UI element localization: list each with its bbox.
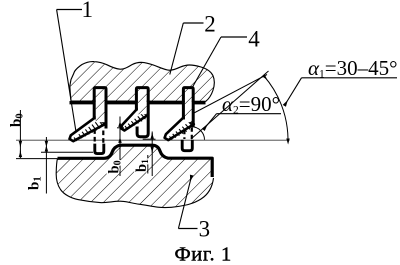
lower plate part 3: stepped top surface (58, 145, 213, 177)
extension line (lower plate surface level) (16, 158, 57, 160)
lower plate part 3: wavy break edge (56, 158, 213, 207)
svg-text:4: 4 (248, 27, 260, 52)
tooth 4 instance 1 (70, 88, 107, 154)
dimension b0 (middle) (119, 117, 121, 177)
lower plate part 3: hatched body (56, 145, 213, 207)
hidden dashes (184, 128, 191, 140)
hidden dashes (95, 129, 104, 143)
angle arc alpha2 (90deg) at tooth 3 (192, 127, 205, 140)
hook strip (70, 117, 106, 141)
bar (96, 89, 105, 122)
upper plate part 2: bottom surface line segments (70, 101, 206, 104)
construction ray at 41deg (alpha1 upper bound) (191, 71, 269, 139)
dimension b1 (middle) (151, 132, 153, 177)
extension line (tooth 1 bottom level) (41, 151, 93, 153)
dimension b0 (left) (19, 110, 21, 158)
bottom end U (95, 144, 104, 154)
bar (185, 89, 192, 122)
tooth 4 instance 2 (121, 88, 148, 137)
upper plate part 2: hatched body with wavy break outline (70, 62, 214, 102)
svg-text:α2=90°: α2=90° (222, 92, 280, 117)
construction ray at 28deg (alpha1 lower bound) (193, 75, 267, 114)
svg-text:Фиг. 1: Фиг. 1 (175, 244, 232, 265)
dimension b1 (left) (45, 137, 47, 194)
hook strip (121, 109, 148, 131)
reference line (barb tip level) (16, 139, 290, 141)
svg-text:3: 3 (199, 216, 211, 241)
svg-text:1: 1 (82, 0, 94, 22)
dimension arc for angle alpha1 (264, 76, 289, 139)
bar (138, 89, 147, 114)
tooth 4 instance 3 (165, 88, 194, 151)
hook strip (165, 117, 194, 140)
svg-text:2: 2 (204, 12, 216, 37)
bottom end U (182, 140, 192, 151)
